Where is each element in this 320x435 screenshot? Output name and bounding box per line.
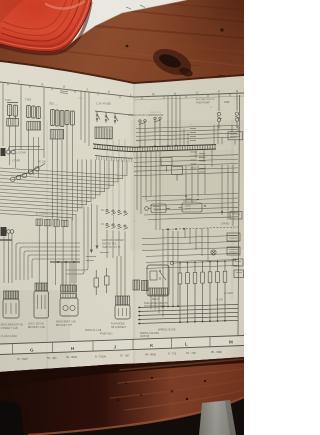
box U6 (227, 233, 240, 241)
bottom part-number codes row (17, 350, 223, 361)
caption plug W4 (111, 323, 127, 330)
harness corner into plug W3 (66, 268, 88, 274)
fuse S3 (switch symbol) (114, 113, 118, 123)
plug W4 body (115, 305, 130, 319)
wire drops from connectors X1 X2 X3 X4 (10, 125, 73, 221)
wire drops from T5 blocks (39, 226, 63, 285)
fuse S2 (switch symbol) (105, 112, 109, 122)
circle terminal G2 (145, 207, 149, 211)
plug W1 body (3, 299, 19, 318)
fuse panel top rail (95, 111, 133, 115)
resistor R5 (193, 262, 197, 322)
white corner of second sheet, top-right (66, 0, 187, 46)
red plastic disc top-left (0, 0, 92, 54)
caption row above strip (1, 300, 224, 339)
resistor R2 (inline) (105, 268, 110, 293)
box U4 (diode block) (172, 167, 183, 181)
dashed tie line across right half (162, 227, 238, 230)
relay K3 wire drops to bus (151, 295, 163, 317)
connector X1 (two-pole plug, top left) (7, 103, 18, 127)
tiny note texts scattered (55, 98, 213, 263)
caption plug W2 (28, 324, 45, 330)
vertical feeders right-mid (163, 230, 178, 307)
bus lines below rail, right half (134, 155, 238, 167)
terminal comb T6b (142, 281, 149, 291)
lighting vignette (0, 0, 244, 435)
bus lines above rail, right half (136, 125, 237, 140)
wire drops from ground bus (62, 262, 74, 285)
bottom zone letters G H J K L M (30, 340, 233, 353)
resistor R7 (208, 262, 212, 322)
bottom wood & floor (0, 357, 244, 435)
connector X3 (three-pole plug) (51, 110, 64, 127)
lower-left pair of bus wires turning down (0, 210, 76, 252)
ignition switch contact row 2 (106, 223, 129, 229)
left bus bundle (12 wires) (0, 160, 127, 212)
switch S5 (pressure switch) (154, 117, 161, 132)
schematic sheet (0, 60, 244, 84)
fuse panel connector row (hatched comb) (95, 127, 113, 140)
resistor R9 (223, 261, 227, 321)
bottom zone strip, upper rule (0, 336, 244, 345)
terminal block X2a (hatched) (27, 122, 41, 131)
bottom strip separators (13, 336, 211, 354)
junction dots right-mid (185, 195, 223, 212)
resistor R1 (inline) (94, 270, 99, 295)
resistor feeder line with terminal ring (170, 261, 236, 265)
extra below-rail bus lines right (134, 168, 238, 176)
box U5 (cutout relay) (178, 199, 202, 212)
bottom strip white band (0, 336, 244, 355)
caption plug W1 (1, 324, 24, 331)
resistor R4 (186, 263, 190, 322)
right-mid tie lines (142, 193, 238, 219)
junction dots on dashed tie (167, 228, 185, 230)
top border zone letters (18, 80, 239, 97)
plug W1 hatched band (4, 291, 19, 299)
lamp E1 (35, 164, 45, 172)
nested corner wires lower-left (16, 243, 80, 280)
tie wires from right bus to border boxes (227, 236, 240, 266)
ground bus G (thick) (50, 261, 80, 263)
junction dots on feeder (179, 260, 226, 263)
paper shading (130, 120, 244, 250)
relay K2 (235, 94, 240, 128)
caption plug W3 (56, 322, 76, 328)
wire riser from fuse comb to ignition row (107, 139, 125, 211)
terminal comb T6a (133, 280, 140, 290)
wire drops to rail from switches (140, 131, 160, 147)
lamp E4 (16, 173, 27, 180)
connector block ZB (dark, left edge) (0, 227, 14, 240)
junction dots top rail (139, 145, 177, 148)
mid feeder wires to plug W4 (117, 256, 125, 296)
fold crease shadow right side (136, 150, 236, 214)
bottom bus lines (5 wires) (138, 304, 238, 323)
relay K3 housing (147, 265, 169, 296)
relay K3 pin row (hatched) (149, 288, 168, 295)
plug W3 body with bulbs (60, 298, 78, 316)
lamp E3 (22, 170, 33, 177)
lamp E5 (11, 175, 22, 182)
ignition switch contact row 1 (106, 209, 129, 215)
node/junction label 10/3 with eyelets (1, 148, 26, 156)
second comb row below rail (95, 156, 133, 163)
box U7 (227, 247, 240, 255)
wire drops from top border, mid right (168, 96, 180, 146)
central connector rail Z (dark band with comb) (93, 144, 216, 152)
ignition switch caption block (102, 239, 124, 249)
fuse S1 (switch symbol) (96, 111, 100, 122)
plug W3 hatched bands (61, 285, 77, 298)
wire risers to box U2 (232, 125, 238, 145)
junction dots on bottom bus (162, 305, 226, 323)
connector X4 (two-pole plug) (65, 111, 74, 126)
wire drops from connector ZB (4, 233, 12, 283)
wood table background (0, 0, 244, 110)
wires bending into eyelets (9, 146, 44, 151)
wire with arrow terminal A1 (96, 205, 98, 249)
lamp E6 with cross (211, 250, 216, 255)
mid vertical wire drops from rail (137, 151, 160, 230)
top-right corner shadow on wood (150, 0, 244, 80)
table front edge & floor (28, 397, 244, 435)
right-mid bus lines (142, 236, 238, 269)
box U10 (right border) (230, 212, 242, 220)
terminal block X3a (hatched) (50, 130, 64, 140)
lower feeders from tie lines (185, 228, 208, 262)
box U8 (233, 259, 243, 266)
box U2 (control module) (228, 132, 243, 140)
long vertical harness wires left-mid (72, 207, 88, 283)
top border scale line (0, 82, 244, 100)
resistor R6 (201, 262, 205, 321)
wire with arrow terminal A2 (90, 204, 92, 253)
box U9 (234, 270, 244, 278)
box U5b (time relay) (148, 204, 170, 213)
bus left terminal dots (139, 307, 141, 325)
plug W2 hatched band (35, 283, 48, 291)
lamp E2 (28, 167, 39, 174)
caption relay K3 (144, 298, 168, 308)
mechanical link (dashed) in ignition switch (113, 213, 115, 228)
vertical feeders upper right-mid (186, 165, 233, 227)
pin stub column P2 (199, 154, 206, 173)
connector X2 (three-pole plug) (27, 106, 41, 119)
wire drops from ignition switch (107, 230, 125, 258)
relay K1 (217, 94, 222, 128)
wire drops from top border, far left (3, 83, 89, 158)
table leg (199, 400, 236, 435)
switch S4 (thermo switch) (139, 120, 146, 133)
resistor R8 (216, 261, 220, 321)
bottom zone strip, lower rule (0, 346, 244, 355)
right border line (238, 95, 240, 336)
terminal block T5c (hatched) (53, 220, 60, 227)
terminal block T5b (hatched) (45, 219, 52, 226)
junction dots on ground bus (57, 261, 75, 263)
pin stub column P1 (190, 129, 197, 169)
plug W4 hatched band (116, 296, 130, 305)
resistor R3 (178, 263, 182, 322)
plug W2 body (34, 291, 49, 318)
terminal block T5a (hatched) (36, 219, 43, 226)
box U3 (resistor pack) (161, 158, 172, 172)
terminal block T5d (hatched) (62, 220, 69, 227)
tick row under upper-left margin (60, 91, 68, 94)
extra bus stubs right of rail (184, 125, 222, 167)
short link stubs center (86, 253, 109, 261)
